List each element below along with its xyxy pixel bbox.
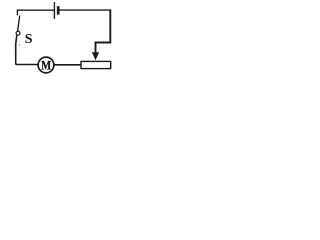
svg-text:S: S bbox=[25, 32, 33, 47]
svg-text:M: M bbox=[41, 57, 51, 72]
